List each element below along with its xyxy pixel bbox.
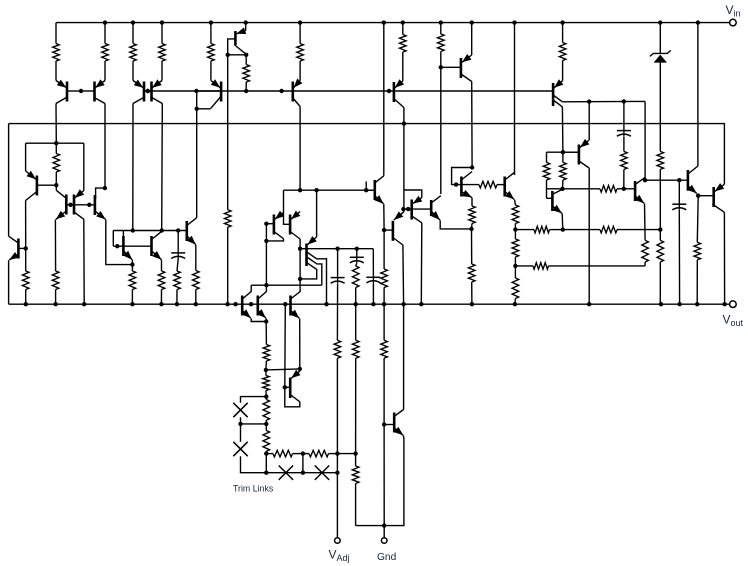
junction x515 y229: [513, 227, 517, 231]
wire corner x373: [372, 249, 374, 278]
wire left node box y143: [26, 142, 84, 144]
transistor Q24 (NPN on rail): [289, 296, 292, 316]
junction lower row x337: [335, 471, 339, 475]
junction cap C2: [335, 247, 339, 251]
junction Q24 emitter node: [298, 367, 302, 371]
junction on Vin rail: [160, 20, 164, 24]
junction x562 y152: [561, 150, 565, 154]
junction trim x240: [238, 422, 242, 426]
resistor R1: [55, 23, 57, 44]
wire Q13 emitter down: [54, 220, 56, 271]
wire base line y246: [113, 245, 151, 247]
resistor R3: [132, 23, 134, 44]
junction on Vout rail: [470, 302, 474, 306]
junction y143 x56: [54, 141, 58, 145]
wire node line y190: [284, 189, 375, 191]
transistor Q11 (PNP top-left): [36, 176, 39, 196]
transistor Q23 (NPN on rail): [256, 296, 259, 316]
wire R40 to Q32 base: [547, 197, 553, 199]
wire Q34 emitter down: [644, 204, 647, 241]
wire Q30 collector loop: [452, 168, 473, 185]
wire node y266 row: [515, 265, 533, 267]
transistor Q9 (PNP): [460, 58, 463, 78]
resistor R16 (x55): [52, 271, 59, 290]
wire zener column top: [659, 23, 661, 54]
transistor Q26 (NPN): [373, 180, 376, 200]
resistor R18 (x161): [158, 271, 165, 290]
junction x227 top: [226, 53, 230, 57]
transistor Q1 (PNP): [66, 82, 69, 102]
resistor R9: [402, 23, 404, 35]
junction on Vout rail: [283, 302, 287, 306]
wire Q10 collector bus y101: [562, 100, 645, 102]
junction on Vin rail: [244, 20, 248, 24]
wire Q25 base-collector tie: [285, 387, 300, 407]
transistor Q3 (PNP): [143, 82, 146, 102]
junction on base bus: [279, 89, 283, 93]
resistor R46 (x384 below rail): [381, 340, 388, 358]
junction Q15 collector x105: [103, 186, 107, 190]
junction on Vin rail: [439, 20, 443, 24]
junction bus-y123: [402, 121, 406, 125]
junction on base bus: [194, 89, 198, 93]
wire Q8 collector column down: [403, 124, 405, 210]
wire Q20 collector: [299, 239, 301, 249]
junction on Vin rail: [209, 20, 213, 24]
resistor R47 (horizontal y266): [533, 263, 549, 270]
wire column x266: [265, 224, 267, 286]
junction y230: [160, 228, 164, 232]
wire Q18 collector column x197: [196, 91, 198, 218]
wire Q1 collector: [55, 104, 57, 144]
wire Q28 collector to rail: [402, 245, 405, 304]
wire Q14 emitter from y143: [83, 143, 85, 190]
wire Q21 base to caps: [307, 248, 374, 250]
transistor Q16 (NPN diode): [122, 236, 125, 256]
transistor Q5 (PNP diode-connected): [220, 82, 223, 102]
junction on Vin rail: [401, 20, 405, 24]
transistor Q7 (PNP): [291, 82, 294, 102]
junction y190: [298, 188, 302, 192]
wire Q32 emitter down: [561, 213, 564, 229]
junction y279: [298, 277, 302, 281]
resistor R29 (x337 below rail): [334, 340, 341, 358]
wire Q19 collector tie: [266, 239, 283, 241]
junction x679 y180: [677, 178, 681, 182]
wire Q27 emitter bracket: [404, 190, 422, 198]
capacitor C1 (x178): [177, 231, 179, 253]
resistor R24 (chain): [265, 424, 267, 431]
resistor R13: [657, 240, 664, 262]
junction y285 x266: [264, 283, 268, 287]
transistor Q29 (NPN): [430, 200, 433, 216]
junction x246 top: [244, 53, 248, 57]
junction on Vout rail: [175, 302, 179, 306]
capacitor C2 (x337): [337, 249, 339, 278]
wire column x697 from rail (Q35 collector): [697, 23, 699, 166]
transistor Q25 (PNP diode): [289, 378, 292, 399]
wire Q27 collector to rail: [420, 223, 423, 304]
wire column x514 from rail: [514, 23, 516, 175]
wire y188 row right: [563, 188, 601, 190]
junction lower row x303: [301, 471, 305, 475]
terminal Vin: [730, 19, 737, 26]
resistor R6 (column x227): [224, 210, 231, 227]
wire x384 to resistor: [383, 230, 385, 269]
junction on Vin rail: [560, 20, 564, 24]
wire emitter node down: [265, 318, 267, 321]
wire Q9 emitter from rail: [471, 23, 473, 55]
junction on Vin rail: [298, 20, 302, 24]
junction on Vout rail: [695, 302, 699, 306]
resistor R40 (x546): [546, 152, 548, 162]
wire bottom Vout rail: [9, 303, 730, 305]
transistor Q21 (PNP multi-collector): [305, 244, 308, 267]
resistor R12 (zener column): [657, 151, 664, 169]
junction on base bus: [387, 89, 391, 93]
resistor R36 (x515 middle): [514, 230, 516, 239]
transistor Q37 (NPN): [393, 413, 396, 433]
transistor Q33 (PNP): [578, 145, 581, 165]
wire Q29 base line y209: [408, 208, 431, 210]
wire y152 node: [547, 151, 579, 153]
junction y246: [115, 244, 119, 248]
wire Q12 emitter down: [8, 260, 10, 304]
wire Q4 collector: [161, 104, 164, 231]
svg-text:Gnd: Gnd: [377, 552, 397, 563]
wire trim left corner: [241, 456, 267, 473]
resistor R44 (x645): [642, 240, 649, 262]
junction on Vin rail: [103, 20, 107, 24]
junction Q25 base: [283, 385, 287, 389]
junction on Vout rail: [371, 302, 375, 306]
junction Q3-Q4 bases: [146, 89, 150, 93]
junction on base bus: [244, 89, 248, 93]
junction Q12 base: [24, 246, 28, 250]
resistor R30 (x356): [352, 266, 359, 288]
capacitor C4 (x373): [372, 277, 374, 283]
junction x698 y195: [696, 194, 700, 198]
trim link X3: [279, 466, 293, 480]
junction Q30 collector: [470, 165, 474, 169]
zener diode D1: [654, 55, 667, 63]
transistor Q36 (PNP output): [712, 187, 715, 207]
transistor Q13 (NPN cross-pair left): [65, 195, 68, 215]
transistor Q6 (PNP diode): [245, 23, 247, 31]
junction on Vin rail: [696, 20, 700, 24]
wire Q36 collector to Vout rail: [723, 212, 725, 304]
junction on Vout rail: [382, 302, 386, 306]
junction on Vin rail: [382, 20, 386, 24]
resistor R4: [161, 23, 163, 44]
wire x384 to gnd: [383, 425, 385, 526]
junction x266 y223: [264, 222, 268, 226]
resistor R7: [245, 55, 247, 65]
wire Q31 emitter down: [514, 200, 517, 205]
junction on Vout rail: [324, 302, 328, 306]
trim link X2: [233, 442, 247, 456]
junction y230: [176, 228, 180, 232]
junction on Vout rail: [354, 302, 358, 306]
wire Q20 base stub: [284, 213, 291, 225]
wire Q18 emitter: [195, 245, 197, 271]
junction y190: [314, 188, 318, 192]
wire y230 to base line: [112, 231, 114, 247]
junction chain y424: [264, 422, 268, 426]
resistor R26 (horizontal): [309, 450, 329, 457]
wire Q16 emitter: [131, 260, 133, 265]
junction Q22-Q23 emitters: [264, 319, 268, 323]
resistor R8: [299, 23, 301, 44]
junction on Vout rail: [249, 302, 253, 306]
wire left column x8 upper: [8, 124, 10, 237]
terminal VAdj: [335, 538, 341, 544]
transistor Q34 (NPN): [634, 181, 637, 201]
wire Q24 emitter down: [299, 319, 301, 369]
wire trim left column lower: [240, 424, 242, 442]
junction x660 y229: [658, 227, 662, 231]
junction Q16-Q17 emitters: [130, 262, 134, 266]
transistor Q27 (PNP): [410, 200, 413, 220]
wire x679 column: [678, 180, 680, 204]
wire Q34 collector to y101 corner: [644, 101, 646, 180]
wire Q8 collector to y123 bus: [403, 108, 405, 124]
wire row to x355: [337, 453, 355, 455]
transistor Q12 (NPN bottom-left): [17, 239, 20, 259]
resistor R45 (x697): [694, 242, 701, 259]
junction on Vout rail: [401, 302, 405, 306]
junction on Vin rail: [512, 20, 516, 24]
svg-text:Trim Links: Trim Links: [233, 484, 274, 494]
junction on Vout rail: [677, 302, 681, 306]
wire Q6 collector node: [228, 54, 247, 56]
resistor R19 (x177): [174, 271, 181, 290]
wire Q33 collector column: [588, 168, 590, 304]
junction chain y370: [264, 368, 268, 372]
junction x645 y180: [643, 178, 647, 182]
wire trim bypass upper lower half: [241, 417, 267, 424]
wire y188 left stub: [547, 188, 563, 190]
wire Q9 collector column: [471, 82, 473, 168]
trim link X1: [233, 403, 247, 417]
resistor R14 (x56): [55, 143, 57, 153]
junction chain y453: [264, 451, 268, 455]
transistor Q18 (NPN): [186, 221, 189, 241]
transistor Q19 (PNP): [273, 215, 276, 235]
wire Q7 collector column x300: [299, 107, 301, 191]
junction y101 x589: [587, 99, 591, 103]
wire Gnd stub: [383, 526, 385, 538]
wire stub x366: [365, 182, 367, 191]
junction x56 y185: [54, 183, 58, 187]
wire node line y230 left block: [113, 230, 187, 232]
junction on Vout rail: [82, 302, 86, 306]
wire node y285: [251, 284, 322, 286]
wire Q21 base line: [300, 248, 306, 250]
wire Q10 second collector down: [561, 107, 564, 152]
wire Q14 collector to rail: [83, 219, 85, 304]
wire Q21 emitter from y190: [316, 190, 318, 237]
resistor R34 (horizontal base): [461, 184, 479, 186]
resistor R35 (x515 upper): [512, 205, 519, 224]
wire Q2 collector: [104, 104, 106, 188]
junction x441: [439, 65, 443, 69]
junction on Vout rail: [587, 302, 591, 306]
wire y229 row right: [563, 229, 600, 231]
resistor R28 (x355): [355, 454, 357, 466]
junction on Vout rail: [419, 302, 423, 306]
junction x562 y188: [560, 187, 564, 191]
junction PNP Q27 base x408: [406, 207, 410, 211]
junction lower row x266: [264, 471, 268, 475]
wire x355 to gnd: [356, 525, 385, 527]
wire Q15 emitter: [106, 220, 133, 265]
resistor R42 (horizontal y188): [600, 186, 617, 193]
junction y229 x562: [561, 227, 565, 231]
transistor Q4 (PNP): [150, 82, 153, 102]
junction x266 y241: [264, 239, 268, 243]
resistor R22 (chain): [265, 370, 267, 376]
resistor R27 (x355 below rail): [352, 340, 359, 358]
wire x403 column low: [403, 304, 405, 409]
wire base link to Q15: [74, 204, 95, 206]
wire base bus y91 (pair2 to Q13): [144, 90, 553, 92]
junction Gnd node: [382, 523, 386, 527]
resistor R43 (x624): [621, 151, 628, 169]
junction on base bus: [146, 89, 150, 93]
resistor R37 (x515 lower): [514, 266, 516, 278]
junction y229 x471: [469, 227, 473, 231]
resistor R23 (chain): [265, 397, 267, 400]
resistor R31 (x384): [381, 269, 388, 288]
transistor Q22 (NPN on rail): [241, 296, 244, 316]
wire Q8 column between: [403, 209, 405, 212]
junction on Vout rail: [225, 302, 229, 306]
resistor R39 (horizontal y229 right): [600, 226, 617, 233]
junction y230: [131, 228, 135, 232]
transistor Q17 (NPN): [150, 236, 153, 256]
wire y180 node row: [645, 179, 687, 181]
junction on Vout rail: [53, 302, 57, 306]
junction on Vin rail: [131, 20, 135, 24]
wire trim bypass upper: [241, 397, 267, 403]
transistor Q2 (PNP): [93, 82, 96, 102]
capacitor C6 (x679): [678, 204, 680, 210]
junction Q37 base: [382, 422, 386, 426]
wire chain tap to Q25: [266, 369, 300, 370]
resistor R32 (x472 upper): [469, 206, 476, 224]
trim link X4: [315, 466, 329, 480]
junction on Vout rail: [722, 302, 726, 306]
junction Q1-Q2 bases: [79, 89, 83, 93]
transistor Q30 (NPN diode): [460, 177, 463, 197]
resistor R33 (x472 lower): [471, 229, 473, 264]
junction on Vout rail: [24, 302, 28, 306]
capacitor C5 (x624): [623, 131, 625, 137]
resistor R17 (x132): [131, 265, 133, 271]
junction on Vin rail: [658, 20, 662, 24]
resistor R41 (x563): [562, 152, 564, 162]
transistor Q14 (PNP cross-pair right): [73, 195, 76, 215]
terminal Vout: [730, 301, 737, 308]
wire lower trim row: [266, 472, 337, 474]
wire Q26 emitter down: [383, 204, 385, 230]
resistor R11: [562, 23, 564, 43]
wire Q17 emitter: [161, 260, 163, 271]
junction on Vout rail: [159, 302, 163, 306]
wire column x300 mid: [299, 249, 301, 289]
wire top Vin rail: [56, 22, 729, 24]
junction PNP Q27 base x403: [401, 207, 405, 211]
resistor R20 (x196): [193, 271, 200, 290]
junction x196 y109: [195, 107, 199, 111]
wire x698 lower: [696, 196, 699, 243]
transistor Q28 (PNP): [392, 221, 395, 241]
transistor Q35 (NPN): [687, 170, 690, 191]
wire Q11 collector column: [25, 201, 27, 249]
wire column x384 from rail: [383, 23, 385, 176]
wire Q33 emitter from y101: [588, 102, 590, 140]
resistor R21 (chain): [263, 345, 270, 362]
wire Q21 collector 3 (outer): [307, 252, 327, 304]
resistor R25 (horizontal): [273, 450, 293, 457]
junction on Vout rail: [233, 302, 237, 306]
wire x303 link: [302, 454, 304, 473]
transistor Q31 (NPN): [503, 177, 506, 197]
junction y190: [364, 188, 368, 192]
wire Q21 collector 2 (middle): [307, 257, 322, 285]
junction on Vout rail: [513, 302, 517, 306]
transistor Q8 (PNP): [393, 82, 396, 102]
junction on Vin rail: [470, 20, 474, 24]
junction x515 y266: [513, 264, 517, 268]
resistor R38 (horizontal y229 left): [534, 226, 550, 233]
junction base link: [87, 203, 91, 207]
transistor Q32 (NPN): [551, 191, 554, 211]
junction on Vout rail: [659, 302, 663, 306]
junction Q30 base: [454, 182, 458, 186]
junction chain y397: [264, 394, 268, 398]
transistor Q10 (PNP double collector): [552, 83, 555, 106]
wire y266 row right: [549, 265, 646, 267]
resistor R5: [210, 23, 212, 44]
wire Q30 emitter down: [471, 198, 473, 207]
wire Q29 emitter node: [440, 220, 471, 229]
capacitor C3 (x356): [356, 249, 358, 258]
wire column x227: [227, 55, 229, 210]
junction on Vout rail: [194, 302, 198, 306]
junction row x355: [353, 451, 357, 455]
wire Q21 collector 1 (inner): [300, 263, 317, 279]
resistor R15 (x25): [25, 248, 27, 271]
wire Q37 emitter loop: [384, 436, 404, 526]
wire column x441 down: [440, 67, 442, 194]
wire column x355 upper: [355, 304, 357, 340]
junction Q21 base: [298, 247, 302, 251]
wire Q5 base-collector tie: [197, 108, 211, 110]
wire x624 column: [623, 101, 625, 130]
resistor R2: [104, 23, 106, 44]
resistor R10: [440, 23, 442, 34]
junction Q26 emitter / Q29 base: [382, 228, 386, 232]
wire Q3 collector: [132, 104, 134, 231]
junction y101 x624: [622, 99, 626, 103]
wire Q11 emitter from y143: [25, 143, 27, 171]
junction cap C3: [355, 247, 359, 251]
wire x384 lower column: [383, 304, 385, 340]
transistor Q20 (PNP): [289, 215, 292, 235]
junction row x303: [301, 451, 305, 455]
